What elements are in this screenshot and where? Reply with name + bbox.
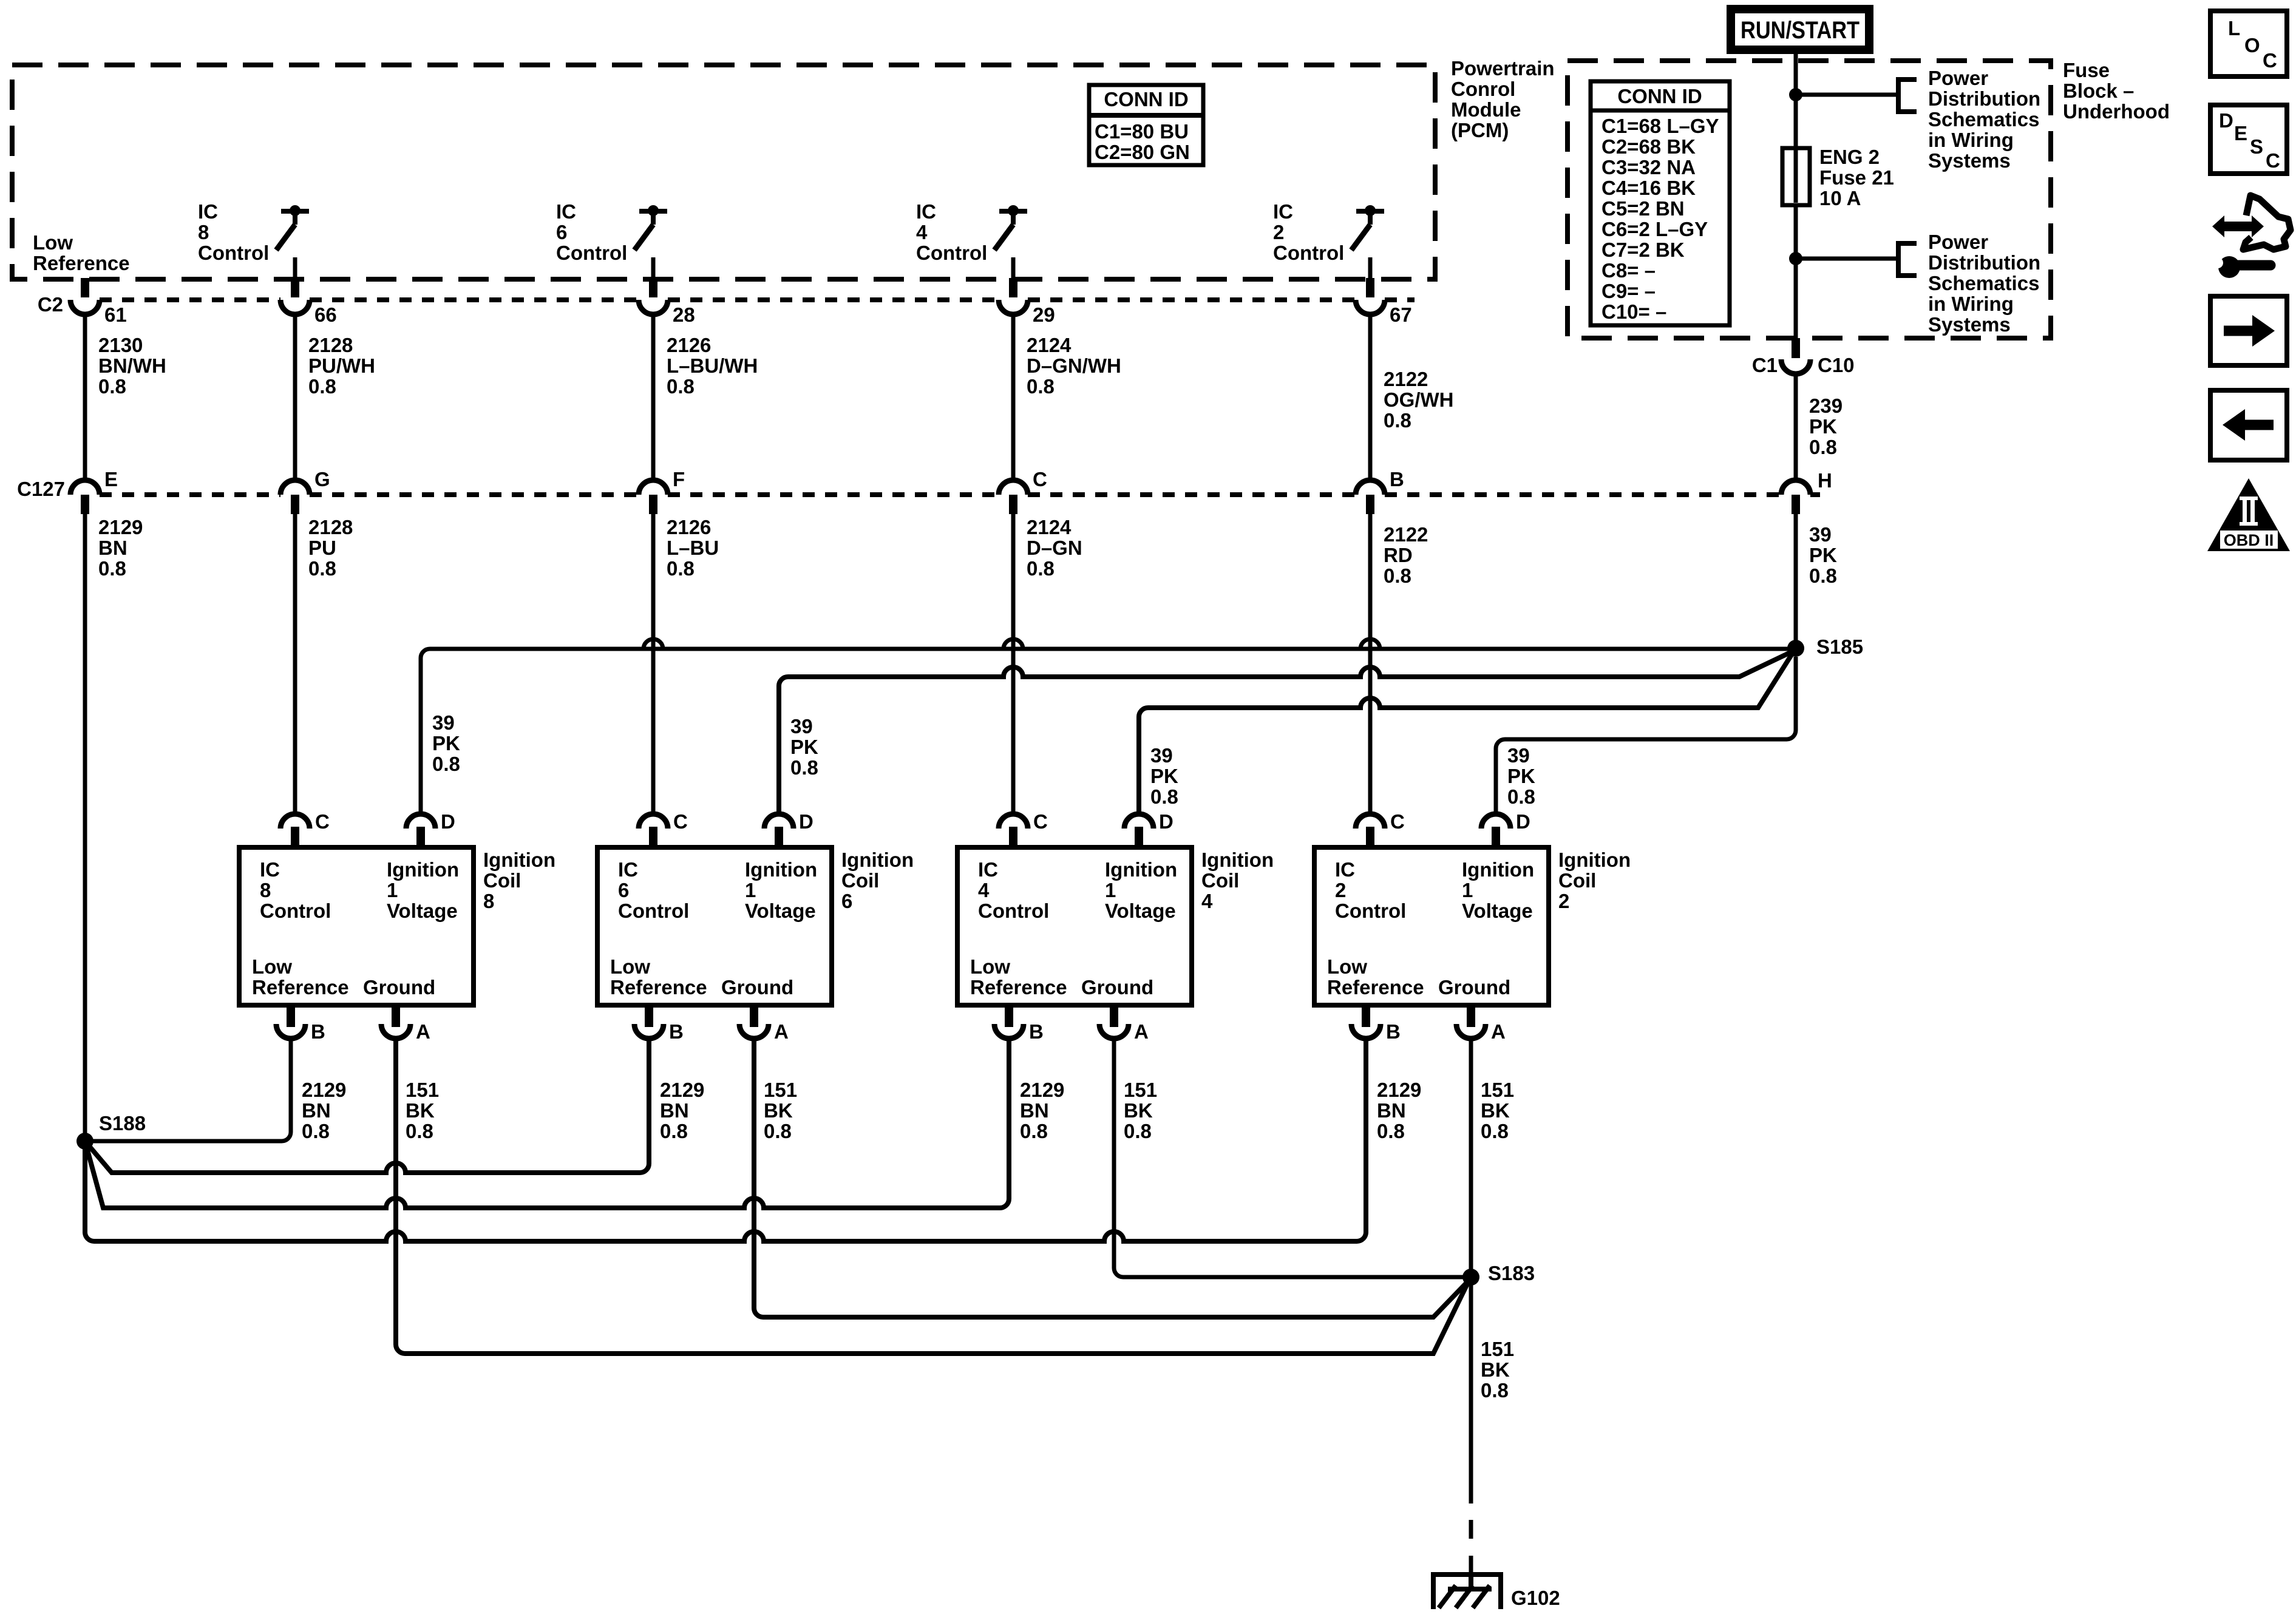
svg-text:2124D–GN/WH0.8: 2124D–GN/WH0.8	[1027, 334, 1121, 398]
junction dot (fuse feed, lower)	[1789, 252, 1802, 265]
label: Powertrain Conrol Module (PCM)	[1451, 57, 1555, 141]
wire 2128 PU 0.8 (C127 to ignition coil 8 pin C)	[295, 514, 353, 815]
svg-text:29: 29	[1033, 303, 1055, 326]
wire 2129 BN 0.8 (ignition coil 8 pin B to S188)	[85, 1039, 346, 1142]
svg-text:E: E	[2234, 122, 2247, 144]
component: Ignition Coil 8	[239, 810, 555, 1043]
svg-text:E: E	[104, 468, 118, 490]
svg-text:L: L	[2228, 17, 2240, 39]
wire 2129 BN 0.8 (C127 pin E down to S188)	[85, 514, 143, 1141]
module: Fuse Block - Underhood dashed outline	[1567, 61, 2051, 338]
wire 2122 RD 0.8 (C127 to ignition coil 2 pin C)	[1370, 514, 1428, 815]
svg-text:2128PU/WH0.8: 2128PU/WH0.8	[308, 334, 375, 398]
icon: DESC box	[2210, 105, 2287, 174]
wire: RUN/START feed down into fuse block	[1794, 54, 1798, 97]
wire 39 PK (S185 to ignition coil 2 pin D)	[1496, 657, 1796, 815]
svg-text:Ground: Ground	[1438, 976, 1510, 998]
svg-text:39PK0.8: 39PK0.8	[1809, 523, 1837, 587]
svg-text:C1: C1	[1752, 354, 1778, 376]
svg-text:2129BN0.8: 2129BN0.8	[302, 1079, 346, 1142]
wire 151 BK 0.8 (ignition coil 8 pin A to S183)	[396, 1039, 1469, 1354]
wire 39 PK (S185 to ignition coil 6 pin D)	[779, 651, 1793, 815]
svg-text:S185: S185	[1816, 636, 1863, 658]
svg-text:S: S	[2250, 135, 2263, 158]
svg-text:PowerDistributionSchematicsin: PowerDistributionSchematicsin WiringSyst…	[1928, 231, 2040, 336]
label: Low Reference (PCM pin function)	[33, 231, 130, 274]
svg-text:66: 66	[314, 303, 337, 326]
fuse ENG 2 Fuse 21 10 A	[1782, 146, 1894, 209]
table: PCM CONN ID box	[1089, 85, 1203, 165]
svg-text:D: D	[2219, 109, 2233, 132]
connector C127: dotted harness line	[17, 478, 1820, 500]
pin 29 (PCM connector C2)	[999, 278, 1055, 326]
svg-text:61: 61	[104, 303, 127, 326]
svg-text:C2: C2	[38, 293, 63, 316]
wire 39 PK (S185 to ignition coil 4 pin D)	[1139, 652, 1793, 815]
svg-text:B: B	[669, 1020, 684, 1043]
svg-text:Ignition1Voltage: Ignition1Voltage	[1105, 858, 1177, 922]
svg-text:151BK0.8: 151BK0.8	[406, 1079, 439, 1142]
svg-text:IgnitionCoil6: IgnitionCoil6	[841, 849, 914, 912]
svg-text:151BK0.8: 151BK0.8	[764, 1079, 797, 1142]
wire 151 BK (ignition coil 4 pin A to S183)	[1114, 1039, 1471, 1277]
wire 2129 BN (S188 to ignition coil 6 pin B)	[85, 1037, 704, 1173]
svg-text:239PK0.8: 239PK0.8	[1809, 395, 1843, 458]
component: Ignition Coil 4	[957, 810, 1274, 1043]
svg-text:B: B	[311, 1020, 325, 1043]
svg-text:IgnitionCoil8: IgnitionCoil8	[483, 849, 555, 912]
svg-text:C127: C127	[17, 478, 65, 500]
wire 2128 PU/WH 0.8 (C2 pin 66 to C127)	[295, 314, 375, 480]
svg-text:OBD II: OBD II	[2224, 531, 2274, 549]
pin 28 (PCM connector C2)	[639, 278, 695, 326]
wire 39 PK (S185 to ignition coil 8 pin D)	[421, 639, 1796, 815]
svg-text:2124D–GN0.8: 2124D–GN0.8	[1027, 516, 1082, 580]
svg-text:RUN/START: RUN/START	[1741, 17, 1860, 44]
svg-text:PowerDistributionSchematicsin: PowerDistributionSchematicsin WiringSyst…	[1928, 67, 2040, 172]
svg-text:2130BN/WH0.8: 2130BN/WH0.8	[98, 334, 166, 398]
splice S188	[76, 1112, 146, 1150]
pin F (connector C127)	[639, 468, 685, 514]
svg-text:A: A	[416, 1020, 430, 1043]
wire 2129 BN (S188 to ignition coil 4 pin B)	[85, 1037, 1064, 1208]
wire 39 PK 0.8 (C127 pin H down to splice S185)	[1796, 514, 1837, 642]
svg-text:Ground: Ground	[721, 976, 793, 998]
svg-text:LowReference: LowReference	[33, 231, 130, 274]
icon: back arrow box	[2210, 390, 2287, 460]
svg-text:FuseBlock –Underhood: FuseBlock –Underhood	[2063, 59, 2170, 123]
svg-text:2129BN0.8: 2129BN0.8	[98, 516, 143, 580]
svg-text:Ignition1Voltage: Ignition1Voltage	[1462, 858, 1534, 922]
label: Power Distribution Schematics in Wiring Systems (upper)	[1928, 67, 2040, 172]
svg-text:C: C	[1390, 810, 1405, 833]
svg-text:D: D	[799, 810, 813, 833]
splice S183	[1462, 1262, 1535, 1286]
svg-text:Ground: Ground	[363, 976, 435, 998]
svg-text:CONN ID: CONN ID	[1104, 88, 1188, 110]
pin H (connector C127)	[1781, 469, 1832, 514]
component: Ignition Coil 2	[1314, 810, 1631, 1043]
wire: feed from junction to fuse	[1794, 95, 1798, 151]
svg-text:C: C	[1033, 810, 1048, 833]
svg-text:151BK0.8: 151BK0.8	[1481, 1338, 1514, 1402]
label: Power Distribution Schematics in Wiring Systems (lower)	[1928, 231, 2040, 336]
wire break: dashed continuation to G102	[1469, 1520, 1473, 1575]
svg-text:LowReference: LowReference	[1327, 955, 1424, 998]
svg-text:C: C	[2266, 149, 2280, 172]
svg-text:C: C	[2263, 49, 2277, 72]
pin B (connector C127)	[1356, 468, 1404, 514]
svg-text:B: B	[1386, 1020, 1401, 1043]
wire 151 BK (ignition coil 2 pin A down to S183)	[1471, 1039, 1514, 1277]
svg-text:CONN ID: CONN ID	[1617, 85, 1702, 107]
svg-text:G: G	[314, 468, 330, 490]
pin C (connector C127)	[999, 468, 1047, 514]
svg-text:F: F	[673, 468, 685, 490]
svg-text:D: D	[1516, 810, 1530, 833]
svg-text:O: O	[2244, 34, 2260, 56]
switch: IC 6 Control driver in PCM	[556, 200, 667, 278]
svg-text:IC6Control: IC6Control	[618, 858, 689, 922]
table: Fuse Block CONN ID box	[1591, 81, 1730, 325]
svg-text:S188: S188	[99, 1112, 146, 1134]
switch: IC 4 Control driver in PCM	[916, 200, 1027, 278]
svg-text:39PK0.8: 39PK0.8	[1507, 744, 1535, 808]
wire 2130 BN/WH 0.8 (C2 pin 61 to C127)	[85, 314, 166, 480]
wire 2124 D–GN 0.8 (C127 to ignition coil 4 pin C)	[1013, 514, 1082, 815]
svg-text:151BK0.8: 151BK0.8	[1124, 1079, 1157, 1142]
svg-text:A: A	[774, 1020, 789, 1043]
svg-text:B: B	[1029, 1020, 1044, 1043]
svg-text:2128PU0.8: 2128PU0.8	[308, 516, 353, 580]
svg-text:67: 67	[1390, 303, 1412, 326]
svg-text:Ignition1Voltage: Ignition1Voltage	[745, 858, 817, 922]
svg-text:G102: G102	[1511, 1587, 1560, 1609]
wire 2126 L–BU 0.8 (C127 to ignition coil 6 pin C)	[653, 514, 719, 815]
connector C2: dotted harness line	[38, 293, 1415, 316]
svg-text:151BK0.8: 151BK0.8	[1481, 1079, 1514, 1142]
icon: OBD II triangle	[2207, 478, 2290, 551]
svg-text:IC4Control: IC4Control	[978, 858, 1049, 922]
svg-text:ENG 2Fuse 2110 A: ENG 2Fuse 2110 A	[1819, 146, 1894, 209]
svg-text:A: A	[1134, 1020, 1149, 1043]
svg-text:39PK0.8: 39PK0.8	[432, 711, 460, 775]
pin E (connector C127)	[70, 468, 118, 514]
wire 239 PK 0.8 (fuse output to C127 pin H)	[1796, 374, 1843, 480]
junction dot (fuse feed, upper)	[1789, 88, 1802, 101]
svg-text:IC4Control: IC4Control	[916, 200, 987, 264]
svg-text:2122OG/WH0.8: 2122OG/WH0.8	[1384, 368, 1453, 432]
wire: fuse to lower junction	[1794, 205, 1798, 261]
svg-text:C: C	[315, 810, 330, 833]
bracket: upper reference	[1898, 80, 1917, 112]
svg-text:C1=80 BUC2=80 GN: C1=80 BUC2=80 GN	[1095, 120, 1190, 163]
bracket: lower reference	[1898, 243, 1917, 276]
power node: RUN/START box	[1731, 9, 1869, 50]
svg-text:C: C	[673, 810, 688, 833]
svg-text:2129BN0.8: 2129BN0.8	[660, 1079, 704, 1142]
pin 61 (PCM connector C2)	[70, 278, 127, 326]
svg-text:PowertrainConrolModule(PCM): PowertrainConrolModule(PCM)	[1451, 57, 1555, 141]
pin G (connector C127)	[280, 468, 330, 514]
wire to upper Power Distribution bracket	[1796, 93, 1898, 97]
wire to lower Power Distribution bracket	[1796, 257, 1898, 261]
module: Powertrain Control Module (PCM) dashed outline	[12, 65, 1435, 279]
label: Fuse Block - Underhood	[2063, 59, 2170, 123]
svg-text:2126L–BU0.8: 2126L–BU0.8	[667, 516, 719, 580]
svg-text:S183: S183	[1488, 1262, 1535, 1284]
pin 67 (PCM connector C2)	[1356, 278, 1412, 326]
svg-text:IC8Control: IC8Control	[260, 858, 331, 922]
svg-text:C: C	[1033, 468, 1047, 490]
svg-text:2122RD0.8: 2122RD0.8	[1384, 523, 1428, 587]
svg-text:IgnitionCoil4: IgnitionCoil4	[1201, 849, 1274, 912]
svg-text:H: H	[1818, 469, 1832, 492]
component: Ignition Coil 6	[597, 810, 914, 1043]
svg-text:LowReference: LowReference	[610, 955, 707, 998]
svg-text:D: D	[441, 810, 455, 833]
wire 2126 L–BU/WH 0.8 (C2 pin 28 to C127)	[653, 314, 758, 480]
pin 66 (PCM connector C2)	[280, 278, 337, 326]
svg-text:B: B	[1390, 468, 1404, 490]
svg-text:Ignition1Voltage: Ignition1Voltage	[387, 858, 459, 922]
svg-text:39PK0.8: 39PK0.8	[790, 715, 818, 779]
svg-text:LowReference: LowReference	[252, 955, 349, 998]
svg-text:C10: C10	[1818, 354, 1855, 376]
wire: lower junction to fuse block edge	[1794, 259, 1798, 338]
wire 151 BK (ignition coil 6 pin A to S183)	[754, 1039, 1469, 1317]
icon: forward arrow box	[2210, 296, 2287, 365]
svg-text:D: D	[1159, 810, 1173, 833]
svg-text:2129BN0.8: 2129BN0.8	[1020, 1079, 1064, 1142]
svg-text:LowReference: LowReference	[970, 955, 1067, 998]
svg-text:39PK0.8: 39PK0.8	[1150, 744, 1178, 808]
wire 2129 BN (S188 to ignition coil 2 pin B)	[85, 1037, 1421, 1241]
svg-text:A: A	[1491, 1020, 1506, 1043]
switch: IC 8 Control driver in PCM	[198, 200, 309, 278]
svg-text:IC2Control: IC2Control	[1335, 858, 1406, 922]
svg-text:2129BN0.8: 2129BN0.8	[1377, 1079, 1421, 1142]
svg-text:2126L–BU/WH0.8: 2126L–BU/WH0.8	[667, 334, 758, 398]
wire 2122 OG/WH 0.8 (C2 pin 67 to C127)	[1370, 314, 1453, 480]
icon: schematic navigation (arrows and wrench)	[2212, 195, 2291, 278]
icon: LOC box	[2210, 11, 2287, 76]
switch: IC 2 Control driver in PCM	[1273, 200, 1384, 278]
svg-text:IC8Control: IC8Control	[198, 200, 269, 264]
svg-text:Ground: Ground	[1081, 976, 1153, 998]
svg-text:IC6Control: IC6Control	[556, 200, 627, 264]
svg-text:IC2Control: IC2Control	[1273, 200, 1344, 264]
ground G102	[1433, 1575, 1560, 1609]
svg-text:C1=68 L–GYC2=68 BKC3=32 NAC4=1: C1=68 L–GYC2=68 BKC3=32 NAC4=16 BKC5=2 B…	[1601, 115, 1719, 323]
wire 2124 D–GN/WH 0.8 (C2 pin 29 to C127)	[1013, 314, 1121, 480]
wire 151 BK 0.8 (S183 toward ground)	[1471, 1277, 1514, 1503]
connector C1/C10 (fuse block output)	[1752, 338, 1855, 376]
svg-text:IgnitionCoil2: IgnitionCoil2	[1558, 849, 1631, 912]
svg-text:28: 28	[673, 303, 695, 326]
splice S185	[1787, 636, 1863, 658]
